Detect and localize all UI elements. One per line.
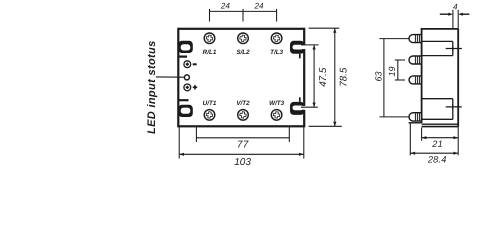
- svg-text:21: 21: [431, 139, 443, 149]
- side view terminal bump 2: [409, 56, 422, 64]
- input terminal minus: [184, 61, 197, 68]
- side view bottom ledge: [409, 122, 422, 124]
- relay body front view: [178, 29, 304, 127]
- screw W/T3: [271, 110, 282, 121]
- svg-text:V/T2: V/T2: [236, 100, 250, 107]
- side view body bottom step: [422, 123, 459, 125]
- svg-text:77: 77: [237, 140, 249, 151]
- dimension 47.5: [301, 45, 319, 107]
- side view terminal bump 1: [409, 35, 422, 43]
- screw R/L1: [204, 33, 215, 44]
- svg-text:U/T1: U/T1: [203, 100, 217, 107]
- dimension 4: [440, 10, 470, 29]
- side view flange bottom: [422, 126, 459, 128]
- side view terminal bump 4: [409, 113, 422, 121]
- svg-text:W/T3: W/T3: [269, 100, 285, 107]
- svg-text:24: 24: [220, 2, 231, 11]
- svg-text:63: 63: [373, 71, 383, 81]
- dimension 24-24 top: [210, 9, 277, 22]
- screw V/T2: [238, 110, 249, 121]
- mounting tab top-right: [290, 41, 306, 59]
- dimension 21: [422, 127, 459, 156]
- mounting tab bottom-left: [178, 100, 193, 117]
- svg-text:LED input stotus: LED input stotus: [146, 40, 158, 134]
- dimension 77: [196, 126, 289, 142]
- dimension 28.4: [410, 152, 458, 155]
- side view lower screw: [446, 104, 462, 109]
- svg-text:R/L1: R/L1: [203, 49, 217, 56]
- screw S/L2: [238, 33, 249, 44]
- dimension 103: [179, 126, 304, 158]
- svg-text:19: 19: [387, 66, 397, 76]
- svg-text:T/L3: T/L3: [270, 49, 283, 56]
- side view left edge: [421, 29, 423, 123]
- LED indicator: [156, 75, 190, 80]
- svg-text:28.4: 28.4: [427, 155, 447, 165]
- side view upper screw: [446, 46, 462, 51]
- svg-text:S/L2: S/L2: [236, 49, 250, 56]
- mounting tab top-left: [178, 41, 193, 57]
- side view terminal bump 3: [409, 76, 422, 84]
- dimension 78.5: [309, 28, 342, 126]
- side view right edge: [457, 29, 459, 127]
- screw U/T1: [204, 110, 215, 121]
- side view flange left face: [409, 123, 411, 156]
- svg-text:24: 24: [253, 2, 264, 11]
- svg-text:47.5: 47.5: [318, 67, 329, 87]
- input terminal plus: [184, 84, 197, 91]
- side view lower terminal block recess: [421, 99, 453, 120]
- svg-text:78.5: 78.5: [339, 67, 350, 87]
- side view top edge: [421, 28, 459, 30]
- svg-text:4: 4: [453, 2, 458, 11]
- dimension 19: [395, 60, 405, 80]
- dimension 63: [379, 39, 408, 117]
- screw T/L3: [271, 33, 282, 44]
- svg-text:103: 103: [234, 157, 251, 168]
- mounting tab bottom-right: [290, 97, 306, 115]
- side view upper terminal block recess: [421, 41, 453, 55]
